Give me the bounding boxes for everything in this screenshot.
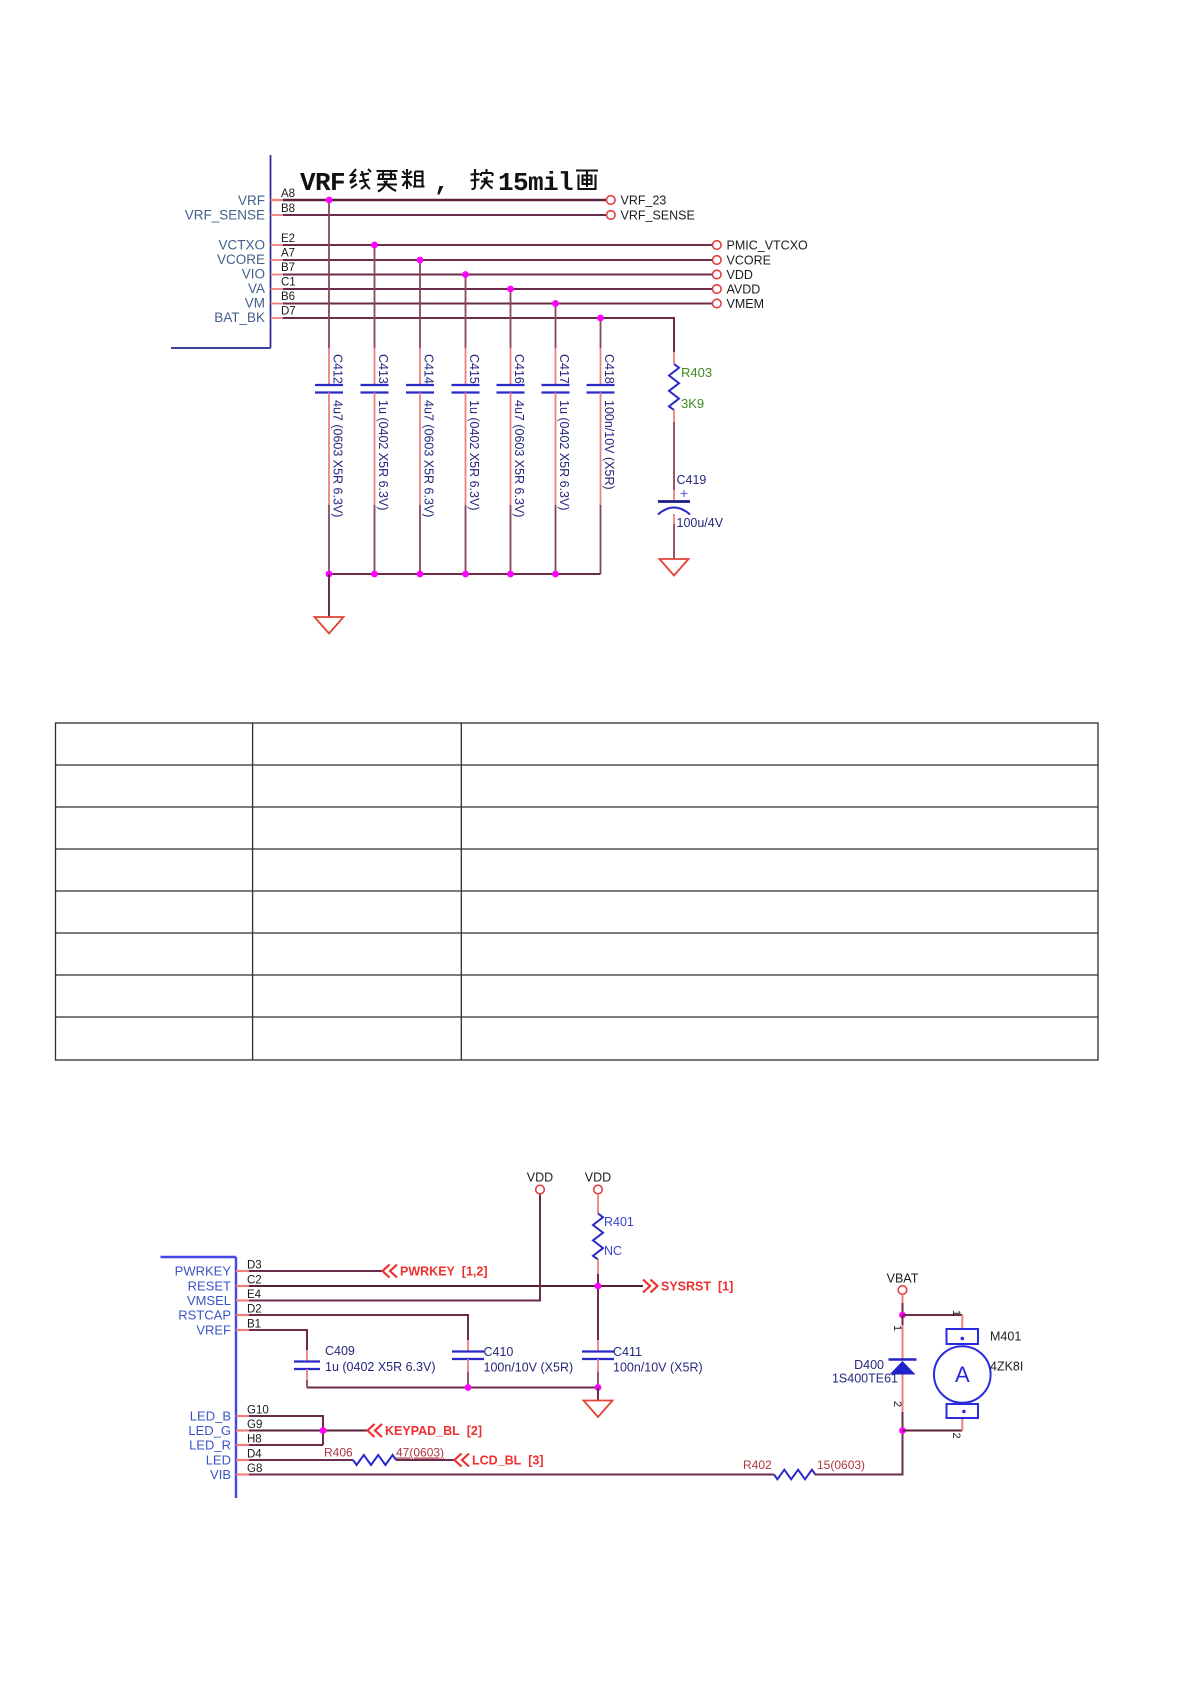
wire R402 to D400 [815, 1431, 903, 1475]
svg-text:B1: B1 [247, 1319, 261, 1331]
pin VCTXO E2 [218, 233, 295, 253]
pin BAT_BK D7 [214, 306, 295, 326]
svg-text:C412: C412 [331, 354, 345, 384]
resistor R401 [593, 1194, 634, 1259]
svg-text:C415: C415 [467, 354, 481, 384]
svg-text:A: A [955, 1362, 970, 1387]
CJK char an (press) [471, 169, 494, 189]
svg-text:D400: D400 [854, 1358, 884, 1372]
svg-text:C416: C416 [512, 354, 526, 384]
table [56, 723, 1099, 1060]
svg-text:E2: E2 [281, 233, 295, 245]
svg-text:,: , [434, 168, 449, 198]
svg-text:A8: A8 [281, 188, 295, 200]
svg-text:G10: G10 [247, 1405, 269, 1417]
wire VM net [283, 303, 712, 305]
port PMIC_VTCXO [713, 239, 809, 253]
wire VA net [283, 288, 712, 290]
pin VREF B1 [196, 1319, 261, 1338]
svg-text:NC: NC [604, 1244, 622, 1258]
chip U400 bottom outline [161, 1257, 237, 1498]
junction dot D400 bottom [899, 1427, 906, 1434]
wire motor bottom [903, 1430, 963, 1432]
port VDD [713, 268, 753, 282]
svg-text:AVDD: AVDD [727, 283, 761, 297]
wire C419 to ground [673, 514, 675, 524]
port VRF_23 [607, 194, 667, 208]
pin RSTCAP D2 [178, 1304, 261, 1323]
CJK char xian (line) [350, 169, 371, 189]
wire VRF net [283, 199, 606, 201]
svg-text:100n/10V (X5R): 100n/10V (X5R) [602, 400, 616, 490]
wire VCTXO net [283, 244, 712, 246]
capacitor C409 [294, 1344, 436, 1388]
offpage chevron LCD_BL [455, 1454, 470, 1467]
capacitor C414 [406, 260, 436, 574]
pin VRF_SENSE B8 [185, 203, 295, 223]
svg-text:2: 2 [891, 1401, 903, 1407]
svg-text:VMEM: VMEM [727, 297, 765, 311]
svg-text:M401: M401 [990, 1330, 1021, 1344]
ground symbol left [315, 617, 344, 634]
svg-text:2: 2 [950, 1433, 962, 1439]
wire BAT_BK net to R403 [283, 318, 674, 352]
wire VIO net [283, 274, 712, 276]
capacitor C411 [582, 1340, 703, 1388]
pin VRF A8 [238, 188, 295, 208]
svg-text:LED_G: LED_G [188, 1423, 231, 1438]
wire VRF_SENSE net [283, 214, 606, 216]
svg-text:VREF: VREF [196, 1323, 231, 1338]
svg-text:VDD: VDD [727, 268, 753, 282]
junction dot C416 top [507, 286, 514, 293]
power port VDD left [527, 1171, 553, 1194]
svg-text:VMSEL: VMSEL [187, 1293, 231, 1308]
pin VIO B7 [242, 262, 295, 282]
svg-text:3K9: 3K9 [681, 396, 704, 411]
port VMEM [713, 297, 765, 311]
wire VBAT down [902, 1295, 904, 1304]
svg-text:VRF: VRF [300, 168, 345, 198]
capacitor C413 [361, 245, 391, 574]
svg-text:C414: C414 [422, 354, 436, 384]
chip U400 top outline [171, 155, 271, 348]
title text VRF line note [300, 168, 573, 198]
capacitor C417 [542, 304, 572, 575]
offpage chevron KEYPAD_BL [368, 1424, 383, 1437]
svg-text:C1: C1 [281, 277, 296, 289]
svg-text:B7: B7 [281, 262, 295, 274]
svg-text:G9: G9 [247, 1419, 262, 1431]
wire to motor top [903, 1314, 963, 1316]
CJK char hua (draw) [576, 171, 598, 190]
junction dot C414 top [417, 257, 424, 264]
pin LED_B G10 [190, 1405, 269, 1424]
svg-text:LED: LED [206, 1453, 231, 1468]
svg-text:LED_R: LED_R [189, 1438, 231, 1453]
wire LED_R stub to junction [249, 1444, 323, 1446]
pin VMSEL E4 [187, 1289, 262, 1308]
port AVDD [713, 283, 761, 297]
svg-text:B6: B6 [281, 291, 295, 303]
svg-text:BAT_BK: BAT_BK [214, 310, 265, 325]
svg-text:B8: B8 [281, 203, 295, 215]
wire RSTCAP net to C410 [249, 1315, 468, 1340]
junction dot bus C414 [417, 571, 424, 578]
wire R403 to C419 [673, 410, 675, 422]
diode D400 [832, 1315, 917, 1431]
svg-text:C419: C419 [677, 473, 707, 487]
port VCORE [713, 254, 771, 268]
wire VCORE net [283, 259, 712, 261]
svg-text:100n/10V (X5R): 100n/10V (X5R) [613, 1361, 703, 1375]
svg-text:VCORE: VCORE [217, 252, 265, 267]
power port VBAT [887, 1272, 919, 1295]
junction dot KEYPAD_BL [320, 1427, 327, 1434]
pin RESET C2 [188, 1275, 262, 1294]
svg-text:VRF_23: VRF_23 [621, 194, 667, 208]
capacitor C419 electrolytic [658, 473, 724, 530]
svg-text:SYSRST [1]: SYSRST [1] [661, 1280, 733, 1294]
offpage chevron SYSRST [643, 1280, 658, 1293]
resistor R402 [743, 1458, 865, 1479]
wire LED net to R406 [249, 1459, 353, 1461]
svg-text:4u7 (0603 X5R 6.3V): 4u7 (0603 X5R 6.3V) [512, 400, 526, 517]
svg-text:PWRKEY [1,2]: PWRKEY [1,2] [400, 1265, 488, 1279]
svg-text:VCTXO: VCTXO [218, 238, 265, 253]
junction dot bus C416 [507, 571, 514, 578]
capacitor C412 [315, 200, 345, 574]
svg-text:R406: R406 [324, 1446, 353, 1460]
wire bus to ground bottom [597, 1388, 599, 1401]
svg-text:C418: C418 [602, 354, 616, 384]
svg-text:A7: A7 [281, 248, 295, 260]
svg-text:100n/10V (X5R): 100n/10V (X5R) [484, 1361, 574, 1375]
svg-text:D4: D4 [247, 1449, 262, 1461]
svg-text:15(0603): 15(0603) [817, 1458, 865, 1472]
svg-text:C409: C409 [325, 1344, 355, 1358]
svg-text:VDD: VDD [585, 1171, 611, 1185]
svg-text:D3: D3 [247, 1260, 262, 1272]
svg-text:1u (0402 X5R 6.3V): 1u (0402 X5R 6.3V) [467, 400, 481, 511]
svg-text:R403: R403 [681, 365, 712, 380]
junction dot bus C417 [552, 571, 559, 578]
junction dot VBAT top [899, 1312, 906, 1319]
svg-text:PMIC_VTCXO: PMIC_VTCXO [727, 239, 809, 253]
svg-text:RSTCAP: RSTCAP [178, 1308, 231, 1323]
svg-text:1u (0402 X5R 6.3V): 1u (0402 X5R 6.3V) [325, 1360, 436, 1374]
svg-text:LCD_BL [3]: LCD_BL [3] [472, 1454, 544, 1468]
wire LED_G net to chevron [249, 1430, 367, 1432]
svg-text:C410: C410 [484, 1345, 514, 1359]
wire PWRKEY net [249, 1270, 382, 1272]
pin VIB G8 [210, 1463, 262, 1482]
junction dot bus C411 [595, 1384, 602, 1391]
svg-text:1: 1 [950, 1310, 962, 1316]
svg-text:1S400TE61: 1S400TE61 [832, 1372, 898, 1386]
offpage chevron PWRKEY [383, 1265, 398, 1278]
capacitor C418 [587, 318, 617, 574]
junction dot C412 top [326, 197, 333, 204]
pin LED_G G9 [188, 1419, 262, 1438]
svg-text:C411: C411 [613, 1345, 642, 1359]
svg-text:D7: D7 [281, 306, 296, 318]
pin LED D4 [206, 1449, 263, 1468]
port VRF_SENSE [607, 209, 695, 223]
svg-text:4u7 (0603 X5R 6.3V): 4u7 (0603 X5R 6.3V) [331, 400, 345, 517]
svg-text:VRF_SENSE: VRF_SENSE [185, 208, 265, 223]
resistor R403 [669, 352, 712, 411]
svg-text:1u (0402 X5R 6.3V): 1u (0402 X5R 6.3V) [376, 400, 390, 511]
svg-text:D2: D2 [247, 1304, 262, 1316]
svg-text:KEYPAD_BL [2]: KEYPAD_BL [2] [385, 1424, 482, 1438]
wire ground bus under capacitors [329, 573, 601, 575]
junction dot C417 top [552, 300, 559, 307]
svg-text:VRF: VRF [238, 193, 265, 208]
svg-text:R401: R401 [604, 1215, 634, 1229]
pin VM B6 [245, 291, 295, 311]
capacitor C416 [497, 289, 527, 574]
svg-text:VA: VA [248, 281, 265, 296]
wire VMSEL net to VDD [249, 1194, 540, 1301]
CJK char cu (thick) [402, 169, 425, 189]
pin LED_R H8 [189, 1434, 262, 1453]
svg-text:VRF_SENSE: VRF_SENSE [621, 209, 695, 223]
svg-text:C2: C2 [247, 1275, 262, 1287]
svg-text:VM: VM [245, 296, 265, 311]
wire RESET net [249, 1285, 643, 1287]
svg-text:4ZK8I: 4ZK8I [990, 1360, 1023, 1374]
svg-text:47(0603): 47(0603) [396, 1446, 444, 1460]
pin VA C1 [248, 277, 296, 297]
wire LED_B net [249, 1416, 323, 1445]
svg-text:1u (0402 X5R 6.3V): 1u (0402 X5R 6.3V) [557, 400, 571, 511]
svg-text:VCORE: VCORE [727, 254, 771, 268]
svg-text:RESET: RESET [188, 1279, 231, 1294]
svg-text:C417: C417 [557, 354, 571, 384]
svg-text:R402: R402 [743, 1458, 772, 1472]
power port VDD right [585, 1171, 611, 1194]
wire cap ground bus bottom [307, 1387, 598, 1389]
svg-text:VIO: VIO [242, 267, 265, 282]
svg-text:G8: G8 [247, 1463, 262, 1475]
svg-text:E4: E4 [247, 1289, 262, 1301]
junction dot C415 top [462, 271, 469, 278]
svg-text:H8: H8 [247, 1434, 262, 1446]
svg-text:C413: C413 [376, 354, 390, 384]
pin VCORE A7 [217, 248, 295, 268]
junction dot RESET R401 [595, 1283, 602, 1290]
resistor R406 [324, 1446, 444, 1466]
wire R406 to chevron [396, 1459, 454, 1461]
junction dot bus C410 [465, 1384, 472, 1391]
pin PWRKEY D3 [175, 1260, 262, 1279]
CJK char yao (want) [377, 171, 398, 192]
junction dot C418 top [597, 315, 604, 322]
wire bus to ground [328, 574, 330, 617]
capacitor C410 [452, 1340, 573, 1388]
svg-text:1: 1 [891, 1325, 903, 1331]
svg-text:15mil: 15mil [498, 168, 573, 198]
motor M401 [934, 1329, 1023, 1418]
junction dot bus C415 [462, 571, 469, 578]
wire VIB net to R402 [249, 1474, 774, 1476]
svg-text:VDD: VDD [527, 1171, 553, 1185]
svg-text:LED_B: LED_B [190, 1409, 231, 1424]
capacitor C415 [452, 275, 482, 575]
svg-text:100u/4V: 100u/4V [677, 516, 724, 530]
junction dot C413 top [371, 242, 378, 249]
svg-text:PWRKEY: PWRKEY [175, 1264, 232, 1279]
ground symbol bottom [584, 1401, 613, 1418]
ground symbol right [660, 559, 689, 576]
junction dot bus C413 [371, 571, 378, 578]
wire R401 to RESET and C411 [597, 1260, 599, 1275]
wire VREF net to C409 [249, 1330, 307, 1350]
svg-text:VIB: VIB [210, 1467, 231, 1482]
junction dot bus C412 [326, 571, 333, 578]
svg-text:4u7 (0603 X5R 6.3V): 4u7 (0603 X5R 6.3V) [422, 400, 436, 517]
svg-text:VBAT: VBAT [887, 1272, 919, 1286]
